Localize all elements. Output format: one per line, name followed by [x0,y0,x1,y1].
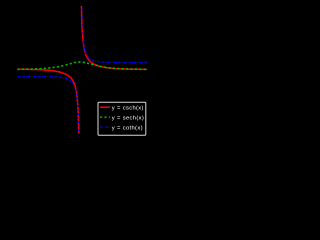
curve coth(x) x>0 branch, blue dash-dot [81,0,84,42]
svg-text:y = sech(x): y = sech(x) [112,115,144,121]
curve csch(x) x<0 branch, red solid [16,69,80,209]
curve coth(x) x>0 flat part, blue dash-dot [83,42,147,63]
curve coth(x) x<0 steep drop, blue dash-dot [76,90,80,210]
legend sample csch [100,106,110,108]
legend frame [98,102,146,135]
curve sech(x) green dashed [17,62,147,70]
curve coth(x) x<0 branch, blue dash-dot [17,77,75,90]
legend sample sech [100,116,110,118]
legend sample coth [100,126,110,128]
svg-text:y = csch(x): y = csch(x) [112,105,144,111]
curve csch(x) x>0 branch, red solid [81,0,148,69]
svg-text:y = coth(x): y = coth(x) [112,125,143,131]
